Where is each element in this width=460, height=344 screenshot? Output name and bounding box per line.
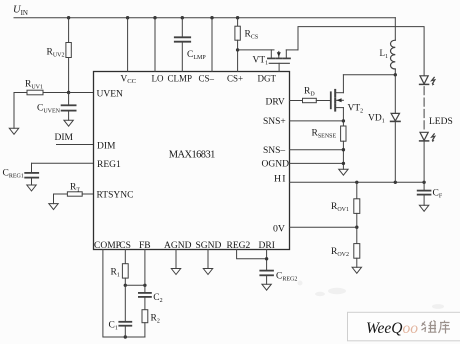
svg-text:DRV: DRV	[266, 98, 285, 108]
resistor R_UV1	[14, 80, 69, 95]
wire OGND	[290, 162, 344, 164]
pin AGND	[164, 241, 192, 251]
node junction dot bus/RCS	[236, 16, 239, 19]
node UIN label	[13, 5, 28, 17]
pin RTSYNC	[97, 191, 134, 201]
svg-text:CLMP: CLMP	[168, 74, 193, 84]
wire DRI stub	[266, 250, 268, 270]
node junction dot HI/VD1	[394, 181, 397, 184]
diode VD1	[368, 75, 400, 183]
pin HI	[274, 173, 287, 184]
pin DIM	[97, 142, 116, 152]
ground left of R_UV1	[9, 128, 18, 134]
svg-text:COMP: COMP	[94, 241, 121, 251]
ground under R_OV2	[352, 267, 361, 273]
pin CLMP	[168, 74, 193, 84]
pin SNS+	[263, 117, 286, 127]
node junction dot HI/ROV1	[355, 181, 358, 184]
node junction dot C1 bottom	[124, 335, 127, 338]
svg-text:RTSYNC: RTSYNC	[97, 191, 134, 201]
svg-text:CS–: CS–	[199, 74, 215, 84]
pin REG1	[97, 160, 121, 170]
svg-text:SNS+: SNS+	[263, 117, 286, 127]
svg-text:WeeQoo: WeeQoo	[366, 320, 418, 337]
node LEDS label	[429, 117, 453, 127]
pin DGT	[258, 74, 277, 84]
wire SGND stub	[207, 250, 209, 269]
capacitor C_UVEN	[37, 93, 76, 121]
node junction dot SNS-	[342, 148, 345, 151]
wire VT2 drain to switch node	[343, 74, 395, 76]
ground under C_UVEN	[64, 120, 73, 126]
wire REG1	[32, 162, 94, 164]
pin SNS-	[263, 146, 285, 156]
capacitor C1	[109, 285, 132, 337]
node junction dot 0V/ROV2	[355, 226, 358, 229]
wire UVEN to IC	[69, 92, 94, 94]
node DIM label	[55, 133, 74, 143]
wire R1 bottom to FB column	[125, 284, 145, 286]
ground under C_REG2	[262, 284, 271, 290]
svg-text:HI: HI	[274, 173, 287, 184]
node junction dot OGND	[342, 162, 345, 165]
node junction dot FB column	[143, 284, 146, 287]
watermark CJK 库	[439, 321, 451, 334]
wire left column to ground	[13, 93, 15, 129]
svg-text:0V: 0V	[273, 224, 285, 235]
svg-text:LO: LO	[152, 74, 164, 84]
watermark box	[348, 312, 460, 341]
svg-text:SNS–: SNS–	[263, 146, 285, 156]
ground left of R_T	[49, 204, 58, 210]
resistor R_CS	[235, 18, 258, 72]
svg-text:REG1: REG1	[97, 160, 121, 170]
ground under C_REG1	[27, 185, 36, 191]
ground AGND	[171, 269, 180, 275]
wire AGND stub	[175, 250, 177, 269]
wire UIN top bus	[14, 17, 395, 19]
pin OGND	[262, 160, 290, 170]
resistor R_SENSE	[312, 121, 347, 169]
node junction dot bus/LO	[153, 16, 156, 19]
capacitor C_F	[418, 182, 443, 205]
pin FB	[139, 241, 151, 251]
wire LED dashed chain	[423, 87, 425, 132]
wire COMP column	[103, 250, 145, 338]
node junction dot SNS+	[342, 119, 345, 122]
resistor R_D	[290, 87, 331, 103]
LED D1 top	[420, 76, 435, 86]
wire LO stub	[154, 18, 156, 72]
pin DRV	[266, 98, 285, 108]
pin REG2	[227, 241, 251, 251]
resistor R_OV2	[331, 227, 360, 267]
wire DIM	[57, 144, 94, 146]
resistor R_UV2	[47, 18, 72, 93]
node junction dot HI/LED/CF	[422, 181, 425, 184]
svg-text:DIM: DIM	[97, 142, 116, 152]
wire CS- stub	[211, 18, 213, 72]
svg-text:MAX16831: MAX16831	[169, 150, 215, 161]
wire VCC stub	[127, 18, 129, 72]
watermark CJK 维	[422, 320, 437, 332]
ground under C_F	[419, 205, 428, 211]
node junction dot REG2/DRI	[265, 257, 268, 260]
svg-text:LEDS: LEDS	[429, 117, 453, 127]
svg-text:CS+: CS+	[227, 74, 243, 84]
resistor R1	[111, 250, 129, 286]
pin CS-	[199, 74, 215, 84]
node junction dot bus/CS-	[210, 16, 213, 19]
op-amp U1 MAX16831 IC box	[94, 72, 290, 250]
pin 0V	[273, 224, 285, 235]
node junction dot UVEN	[67, 91, 70, 94]
ground SGND	[203, 269, 212, 275]
node junction dot bus/CLMP	[181, 16, 184, 19]
transistor Q2 VT2 NMOS	[331, 75, 363, 121]
svg-text:OGND: OGND	[262, 160, 290, 170]
svg-text:SGND: SGND	[196, 241, 222, 251]
wire 0V	[290, 226, 357, 228]
svg-text:DGT: DGT	[258, 74, 277, 84]
svg-text:AGND: AGND	[164, 241, 192, 251]
capacitor C_LMP	[175, 18, 207, 72]
svg-text:REG2: REG2	[227, 241, 251, 251]
inductor L1	[380, 18, 396, 75]
wire FB column	[144, 250, 146, 293]
pin DRI	[259, 241, 275, 251]
ground under R_SENSE	[339, 169, 348, 175]
pin VCC	[121, 74, 137, 85]
node junction dot R1/FB	[124, 284, 127, 287]
pin COMP	[94, 241, 121, 251]
node junction dot CS+/VT1 source	[236, 48, 239, 51]
svg-text:UVEN: UVEN	[97, 90, 124, 100]
capacitor C_REG2	[260, 271, 297, 285]
pin SGND	[196, 241, 222, 251]
LED D2 bottom	[420, 132, 435, 182]
smudge faint	[298, 281, 445, 309]
pin CS	[119, 241, 131, 251]
resistor R_T	[54, 183, 94, 197]
resistor R_OV1	[331, 182, 360, 227]
wire HI rail	[290, 181, 425, 183]
capacitor C2	[139, 293, 163, 310]
wire REG2 stub	[237, 250, 267, 259]
pin UVEN	[97, 90, 124, 100]
node junction dot bus/VCC	[126, 16, 129, 19]
wire VT1 drain to LED rail	[298, 27, 424, 76]
node junction dot switch node	[394, 73, 397, 76]
svg-text:DIM: DIM	[55, 133, 74, 143]
wire SNS-	[290, 149, 344, 151]
wire RT left to ground	[53, 194, 55, 204]
node junction dot bus/R_UV2	[67, 16, 70, 19]
pin LO	[152, 74, 164, 84]
wire SNS+	[290, 120, 344, 122]
pin CS+	[227, 74, 243, 84]
capacitor C_REG1	[3, 163, 39, 185]
resistor R2	[142, 310, 160, 337]
transistor Q1 VT1 PMOS	[238, 50, 298, 72]
